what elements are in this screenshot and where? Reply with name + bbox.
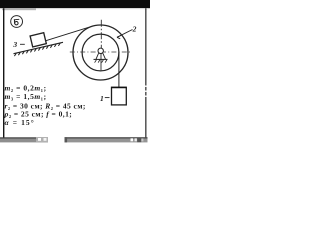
incline hatching xyxy=(14,43,60,56)
svg-text:ρ₂ = 25 см; f = 0,1;: ρ₂ = 25 см; f = 0,1; xyxy=(4,109,73,118)
svg-text:3: 3 xyxy=(12,40,17,49)
right page border xyxy=(145,8,146,138)
label 3 leader dash xyxy=(20,43,25,45)
pulley outer circle R xyxy=(73,25,128,80)
variant label circle xyxy=(11,16,23,28)
top black scan bar xyxy=(0,0,150,8)
weight 1 box xyxy=(112,87,127,105)
grey streak under top bar xyxy=(2,8,36,10)
vertical centerline xyxy=(100,20,102,48)
string from block to pulley xyxy=(46,26,93,41)
svg-text:2: 2 xyxy=(132,25,137,34)
svg-text:m₃ = 1,5m₁;: m₃ = 1,5m₁; xyxy=(5,92,47,101)
left page border xyxy=(3,8,4,139)
page background xyxy=(0,0,150,150)
weight top edge heavy xyxy=(111,87,127,89)
bottom grey scan bar left segment xyxy=(0,137,48,138)
variant letter б xyxy=(14,19,19,25)
bearing support triangle xyxy=(96,53,106,59)
axle vertical line xyxy=(100,53,102,70)
block 3 on incline xyxy=(30,33,46,47)
svg-text:α = 15°: α = 15° xyxy=(5,118,35,127)
incline surface line xyxy=(14,42,64,53)
pulley inner circle r xyxy=(82,34,119,71)
string from pulley to weight xyxy=(118,52,120,88)
bottom grey scan bar right segment xyxy=(65,137,148,138)
right border gaps (dashed scan) xyxy=(145,86,147,87)
axle hub xyxy=(98,48,103,53)
bearing base xyxy=(94,58,108,60)
svg-text:1: 1 xyxy=(100,94,104,103)
label 2 leader arrow xyxy=(117,30,133,38)
bearing hatching xyxy=(95,60,107,63)
label 1 leader dash xyxy=(105,97,110,99)
horizontal centerline xyxy=(70,51,132,53)
